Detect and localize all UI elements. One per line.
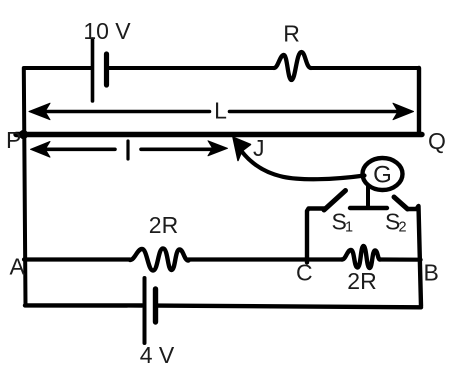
resistor R xyxy=(274,52,311,80)
svg-text:10 V: 10 V xyxy=(83,18,131,44)
arrow l shaft right xyxy=(141,148,212,152)
wire: top right segment xyxy=(311,66,419,70)
svg-text:2R: 2R xyxy=(149,212,178,238)
wire: curve from jockey to galvanometer xyxy=(242,152,365,180)
wire: switch branch left vertical from C xyxy=(307,209,325,263)
switch S1 blade xyxy=(324,191,346,211)
wire: bottom wire right segment xyxy=(156,306,422,308)
label l xyxy=(126,141,129,159)
arrow l left head xyxy=(31,142,51,158)
svg-text:2R: 2R xyxy=(347,268,376,294)
svg-text:B: B xyxy=(424,260,439,286)
svg-text:G: G xyxy=(373,162,392,189)
battery B1 10V long plate xyxy=(91,39,95,101)
svg-text:A: A xyxy=(10,254,26,280)
svg-text:J: J xyxy=(253,135,265,161)
wire: bottom wire left segment xyxy=(25,303,142,308)
battery B1 10V short plate xyxy=(104,54,109,85)
wire: right vertical top xyxy=(417,68,421,133)
svg-text:4 V: 4 V xyxy=(140,342,175,368)
wire: A-B wire right segment xyxy=(380,257,421,261)
svg-text:R: R xyxy=(283,21,300,47)
arrow L shaft left xyxy=(44,110,210,114)
svg-text:Q: Q xyxy=(428,128,446,154)
wire: top middle segment xyxy=(107,66,275,70)
wire: S2 to right vertical xyxy=(408,206,422,306)
svg-text:P: P xyxy=(6,127,21,153)
galvanometer G xyxy=(363,158,403,190)
svg-text:1: 1 xyxy=(345,220,353,236)
arrow L left head xyxy=(29,103,50,120)
resistor 2R (right) xyxy=(342,246,380,268)
wire: left vertical + top wire left segment xyxy=(24,68,91,305)
svg-text:L: L xyxy=(214,98,227,124)
potentiometer wire bar P-Q xyxy=(16,132,422,137)
arrow L shaft right xyxy=(230,110,400,114)
battery B2 4V short plate xyxy=(153,289,158,322)
wire: A-B wire middle segment xyxy=(189,257,343,261)
battery B2 4V long plate xyxy=(143,278,147,343)
arrow l right head xyxy=(208,141,228,156)
arrow L right head xyxy=(393,103,414,120)
switch S2 blade xyxy=(394,197,408,209)
node P junction dot xyxy=(19,130,28,139)
jockey J arrowhead xyxy=(233,137,251,160)
wire: from G down to switch junction xyxy=(366,185,370,208)
svg-text:C: C xyxy=(296,260,313,286)
arrow l shaft left xyxy=(43,148,115,152)
resistor 2R (left) xyxy=(130,249,189,271)
wire: center contact segment xyxy=(350,206,387,210)
svg-text:2: 2 xyxy=(399,220,407,236)
wire: A-B wire left segment xyxy=(24,257,130,261)
